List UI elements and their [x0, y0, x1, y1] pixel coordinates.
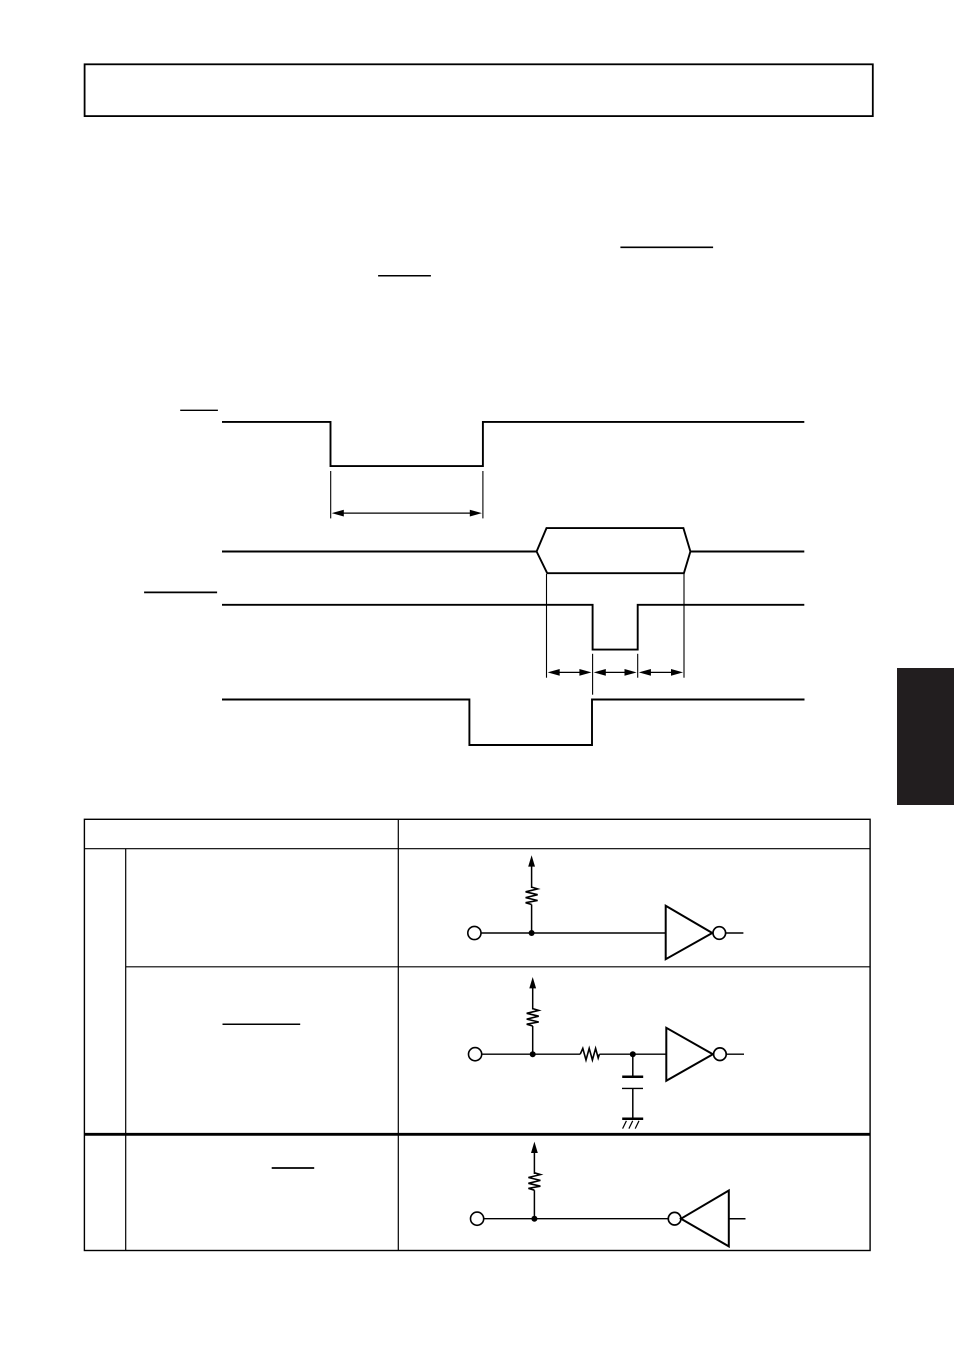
- wire input stub: [729, 1218, 746, 1220]
- input pad terminal: [468, 926, 481, 939]
- resistor R pull-up: [526, 887, 538, 904]
- resistor R pull-up: [527, 1009, 539, 1026]
- node junction dot: [531, 1216, 537, 1222]
- node label overline (waveform 3 signal name): [144, 591, 217, 593]
- wire resistor to node: [533, 1190, 535, 1219]
- wire capacitor to ground: [632, 1088, 634, 1118]
- row 1 circuit: input cell: [468, 855, 744, 959]
- node junction dot: [529, 930, 535, 936]
- node junction dot 2: [630, 1051, 636, 1057]
- inverter U3 input bubble: [668, 1212, 681, 1225]
- power arrow (VCC): [529, 977, 536, 1010]
- input pad terminal: [469, 1048, 482, 1061]
- overline over signal name in text line 2: [378, 275, 431, 277]
- output pad terminal: [471, 1212, 484, 1225]
- wire resistor to node: [532, 1026, 534, 1054]
- row 3 circuit: output cell: [471, 1142, 746, 1247]
- power arrow (VCC): [528, 855, 535, 888]
- capacitor C top plate: [622, 1075, 643, 1078]
- dimension tick below waveform 3 rising edge: [637, 654, 639, 678]
- timing diagram: [144, 410, 804, 745]
- wire resistor to node: [531, 905, 533, 934]
- capacitor C bottom plate: [622, 1087, 643, 1089]
- dimension arrow: setup time: [548, 669, 592, 676]
- wire: waveform 2 bus line right: [690, 551, 804, 553]
- wire pad to series resistor: [482, 1053, 581, 1055]
- bus valid-data hexagon: [537, 528, 691, 573]
- overline over signal name in table row 3 left cell: [272, 1167, 315, 1169]
- wire node to capacitor: [632, 1054, 634, 1075]
- wire pad to inverter bubble: [484, 1218, 669, 1220]
- inverter U1 output bubble: [713, 927, 726, 940]
- dimension tick left of pulse width: [330, 471, 332, 518]
- inverter U3 triangle (left facing): [681, 1191, 729, 1247]
- overline over signal name in table row 2 left cell: [223, 1023, 301, 1025]
- dimension tick right of pulse width: [482, 471, 484, 518]
- dimension tick from hexagon left edge: [546, 574, 548, 678]
- node label overline (waveform 1 signal name): [180, 409, 218, 411]
- node junction dot: [530, 1051, 536, 1057]
- wire pad to inverter: [481, 932, 666, 934]
- resistor R series: [580, 1048, 599, 1060]
- inverter U2 output bubble: [714, 1048, 727, 1061]
- wire output stub: [726, 1053, 744, 1055]
- wire: waveform 4 (busy pulse): [222, 700, 805, 746]
- dimension tick from hexagon right edge: [683, 574, 685, 678]
- power arrow (VCC): [531, 1142, 538, 1174]
- table grid: [84, 819, 870, 1250]
- dimension arrow: pulse width: [332, 510, 482, 517]
- wire: waveform 2 bus line left: [222, 551, 537, 553]
- wire: waveform 1 (chip-select pulse): [222, 422, 804, 466]
- inverter U1 triangle: [666, 906, 713, 960]
- overline over signal name in text line 1: [620, 246, 713, 248]
- resistor R pull-up: [528, 1173, 540, 1190]
- dimension arrow: pulse time: [594, 669, 637, 676]
- ground symbol: [622, 1119, 643, 1129]
- header box: [85, 64, 873, 116]
- inverter U2 triangle: [666, 1028, 713, 1081]
- row 2 circuit: input cell with noise filter: [469, 977, 745, 1129]
- black section index tab: [897, 668, 954, 805]
- wire output stub: [726, 932, 744, 934]
- dimension tick below waveform 3 falling edge: [592, 654, 594, 695]
- wire: waveform 3 (write strobe): [222, 605, 804, 650]
- wire resistor to inverter: [599, 1053, 666, 1055]
- dimension arrow: hold time: [639, 669, 683, 676]
